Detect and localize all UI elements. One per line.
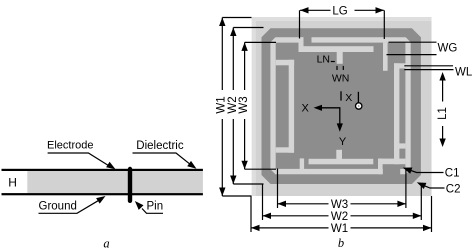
Y axis [339, 107, 341, 125]
svg-text:W1: W1 [331, 223, 348, 235]
svg-text:H: H [8, 175, 17, 189]
ground leader [39, 200, 100, 213]
svg-text:Dielectric: Dielectric [136, 140, 184, 152]
substrate top highlight [252, 17, 432, 21]
electrode leader [48, 153, 109, 166]
W3 vertical dimension (left) [244, 42, 246, 90]
svg-text:LG: LG [332, 5, 347, 17]
svg-text:W2: W2 [331, 211, 348, 223]
electrode top line [2, 169, 203, 171]
feed offset tick right [357, 92, 359, 103]
LG left arm [299, 10, 301, 38]
LG right arm [383, 10, 385, 39]
svg-text:a: a [103, 236, 109, 249]
W3 bottom dimension [277, 169, 279, 209]
ring slot (chamfered frame) [270, 37, 410, 174]
inner meander slot top [299, 46, 374, 52]
svg-text:WL: WL [455, 67, 473, 79]
LG right arrow [376, 7, 385, 13]
LG dimension line [300, 9, 331, 11]
pin [128, 167, 132, 203]
C1 arrow [403, 168, 413, 174]
inner meander slot right [394, 63, 399, 164]
inner meander slot bottom [309, 159, 374, 165]
slot stub left-top [276, 60, 294, 66]
X axis [318, 107, 340, 109]
slot hook top-right [383, 43, 388, 71]
svg-text:Ground: Ground [39, 201, 77, 213]
svg-text:C1: C1 [445, 168, 460, 180]
electrode arrow [106, 162, 115, 170]
svg-text:C2: C2 [446, 184, 461, 196]
svg-text:Pin: Pin [147, 201, 164, 213]
svg-text:Electrode: Electrode [47, 140, 93, 152]
svg-text:Y: Y [339, 136, 347, 148]
slot band right-bottom [394, 143, 405, 148]
WN ticks [336, 66, 338, 70]
svg-text:X: X [302, 103, 310, 115]
slot step band right [394, 63, 405, 68]
svg-text:L1: L1 [437, 107, 449, 120]
WG leader lines [389, 41, 437, 43]
svg-text:b: b [338, 236, 344, 249]
svg-text:X: X [345, 92, 352, 104]
L1 dimension [442, 80, 444, 102]
C1 leader [409, 170, 444, 173]
slot stub bottom-left [300, 158, 304, 170]
slot band bottom-right [378, 159, 405, 165]
dielectric leader [133, 153, 191, 164]
patch (chamfered corners) [262, 28, 421, 184]
feed point [356, 103, 362, 109]
ground arrow [96, 196, 105, 204]
svg-text:LN: LN [317, 54, 330, 66]
feed offset tick left [340, 91, 342, 100]
W2 bottom dimension [262, 184, 264, 220]
substrate [252, 17, 432, 196]
C2 arrow [417, 182, 427, 189]
ring gap bottom-right [383, 168, 400, 175]
slot step top-left [299, 37, 304, 52]
slot step bottom-right [378, 159, 383, 175]
LN dash [331, 61, 335, 63]
W1 vertical dimension (left) [221, 18, 223, 91]
svg-text:W3: W3 [331, 199, 348, 211]
W2 vertical dimension (left) [232, 28, 234, 91]
ring gap top [304, 36, 312, 44]
ground bottom line [2, 193, 203, 195]
pin arrow [135, 201, 144, 210]
W1 bottom dimension [250, 196, 252, 232]
svg-text:WG: WG [438, 43, 458, 55]
pin leader [142, 209, 163, 214]
inner meander slot left [289, 60, 294, 153]
dielectric arrow [187, 161, 196, 169]
svg-text:WN: WN [332, 73, 350, 85]
notch slot WN [337, 52, 343, 64]
notch slot bottom center [336, 150, 342, 160]
substrate left highlight [252, 17, 256, 196]
svg-text:W1: W1 [216, 96, 228, 113]
LG left arrow [300, 7, 309, 13]
svg-text:W3: W3 [238, 96, 250, 113]
WL leader lines [404, 65, 453, 67]
slot stub left-bottom [276, 147, 294, 152]
dielectric slab [27, 170, 203, 193]
C2 leader [423, 185, 445, 188]
